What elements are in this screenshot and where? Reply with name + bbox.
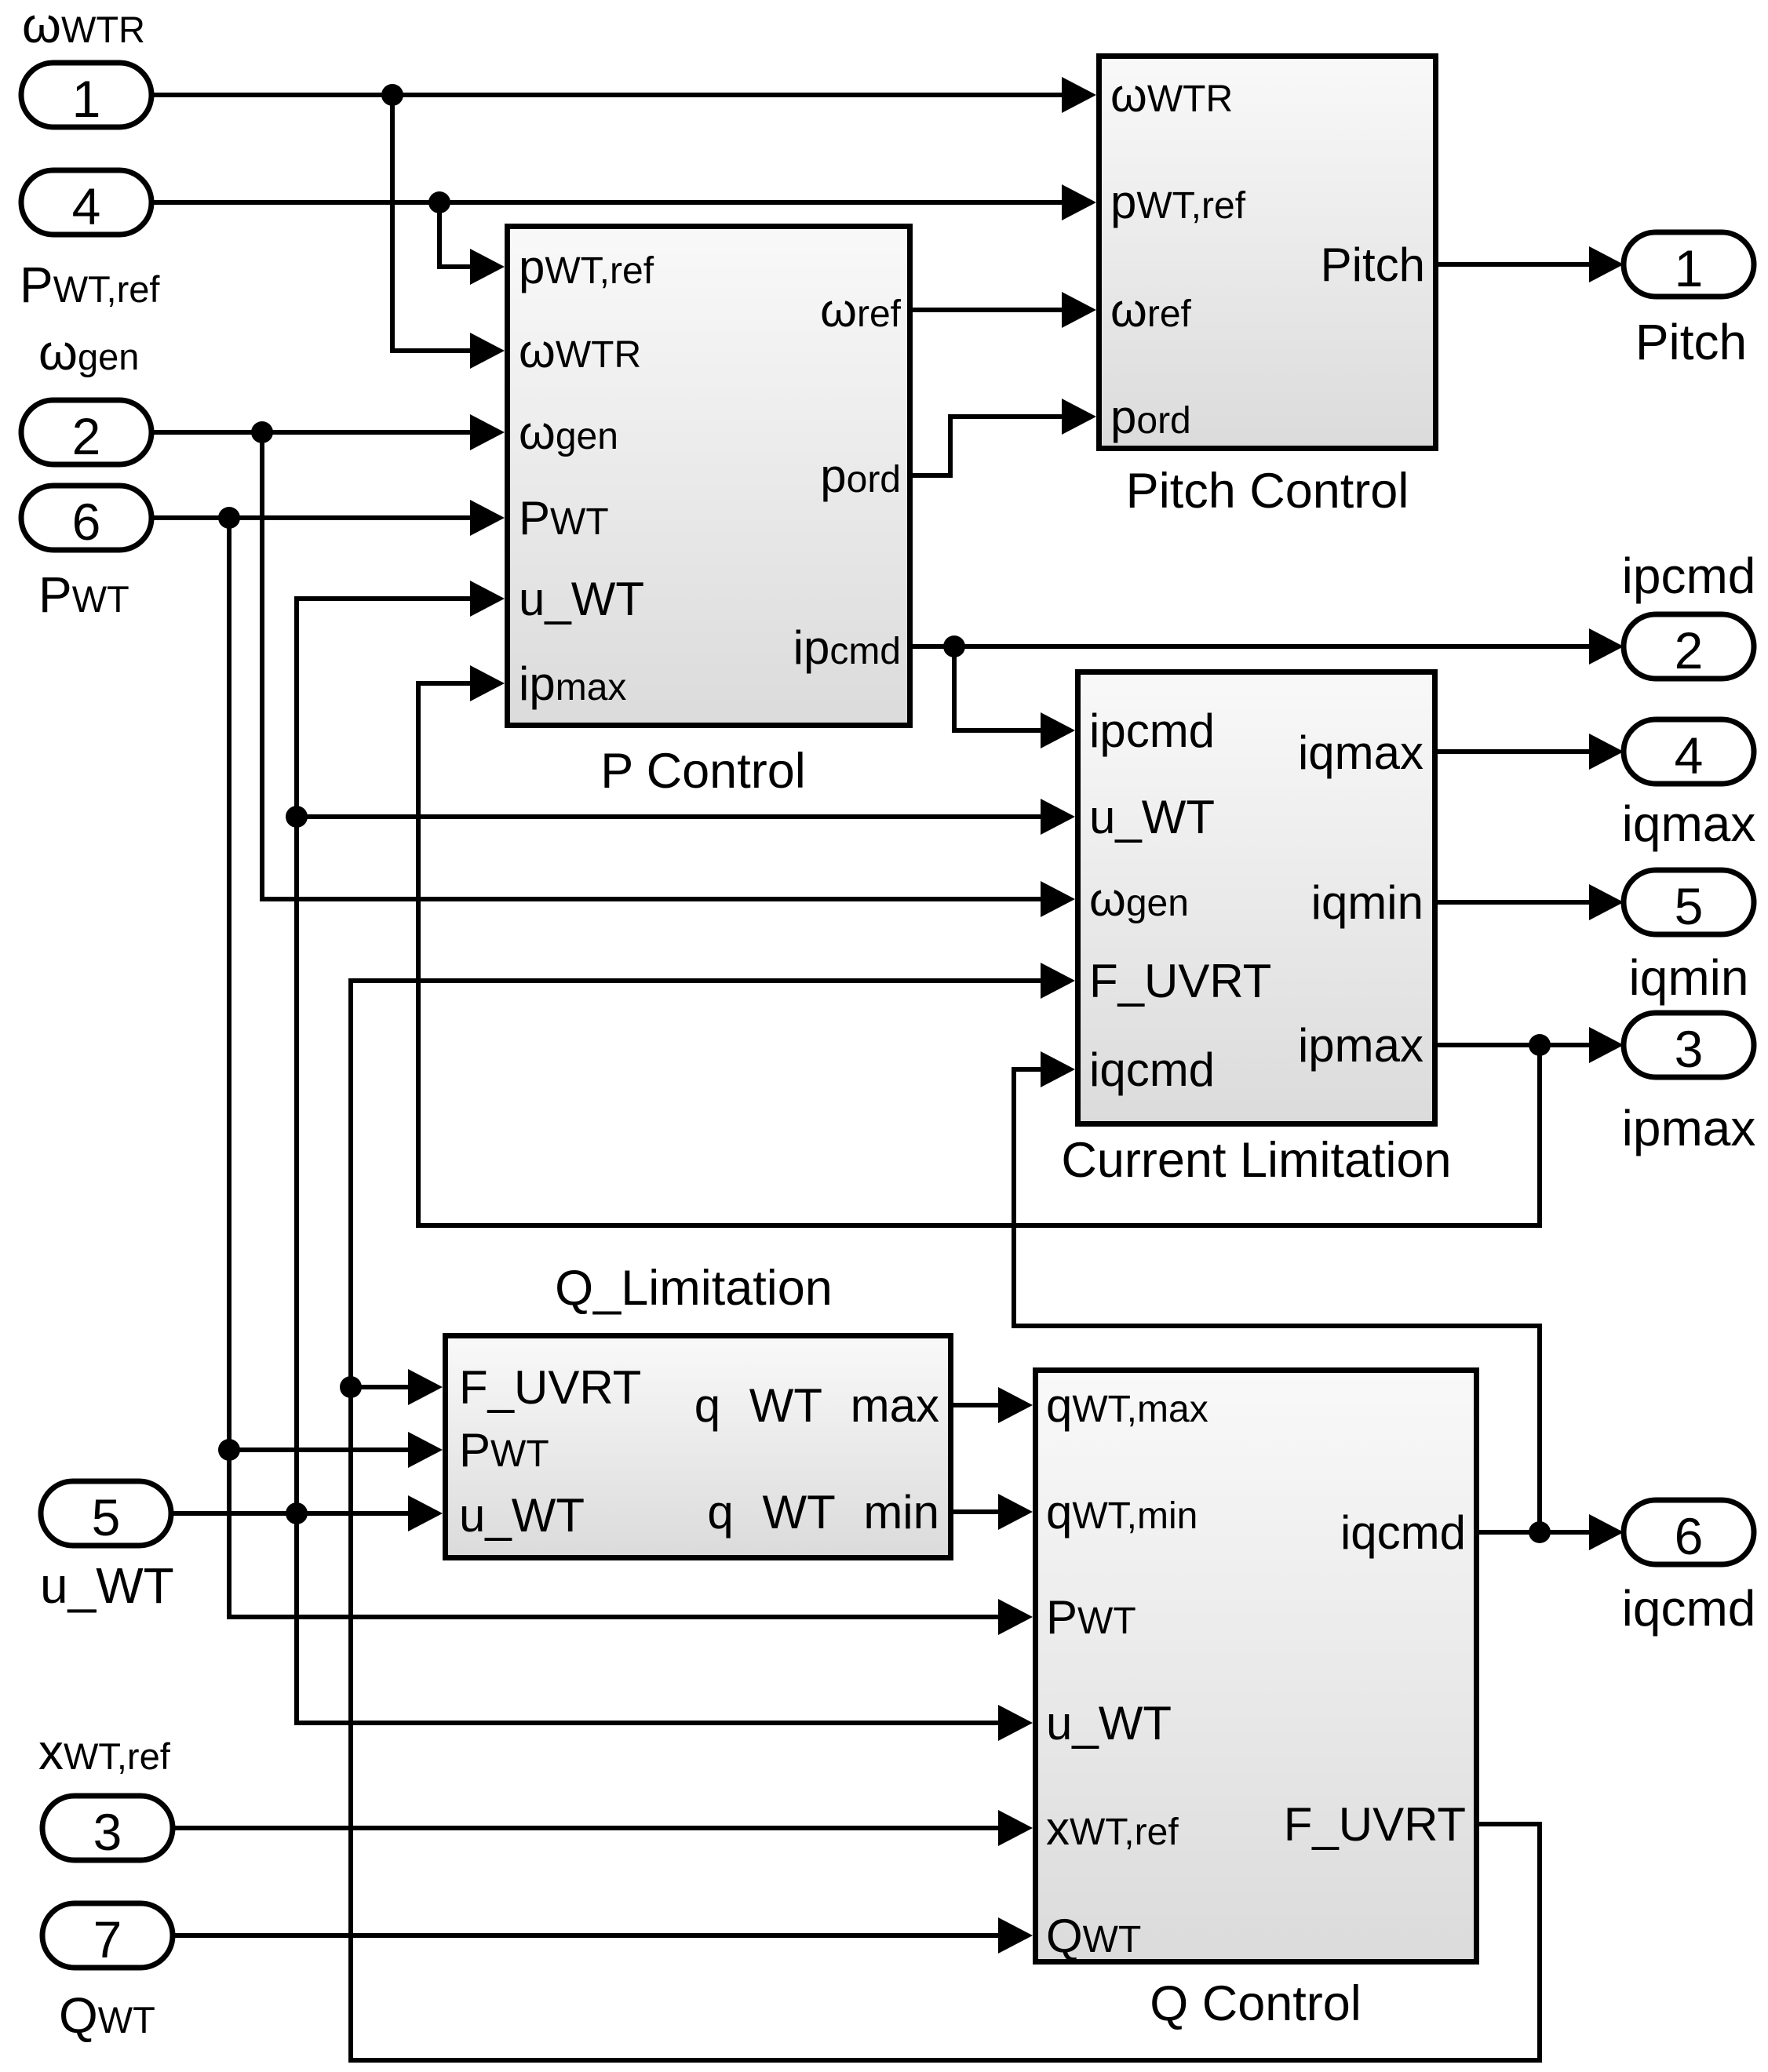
arrowhead xWTref at Q Control [998, 1810, 1033, 1846]
arrowhead at output port 6 [1589, 1514, 1624, 1550]
svg-text:Current Limitation: Current Limitation [1061, 1133, 1451, 1188]
arrowhead u_WT at Q Control [998, 1705, 1033, 1741]
wire F_UVRT branch to Q_Limitation [351, 1385, 410, 1389]
svg-text:u_WT: u_WT [40, 1557, 174, 1614]
arrowhead pord at Pitch Control [1062, 399, 1096, 435]
svg-text:ipmax: ipmax [1298, 1019, 1424, 1072]
input port 1 omega_WTR [21, 63, 151, 127]
wire iqmax to output 4 [1438, 749, 1591, 754]
wire u_WT port5 to Q_Limitation [171, 1511, 410, 1516]
wire ipcmd P Control to output 2 [913, 644, 1591, 649]
svg-text:Q_Limitation: Q_Limitation [555, 1261, 833, 1316]
junction iqcmd [1529, 1521, 1551, 1543]
output port 2 ipcmd [1624, 614, 1754, 679]
wire PWT port6 to P Control [151, 515, 472, 520]
arrowhead u_WT at P Control [470, 581, 505, 617]
svg-text:iqcmd: iqcmd [1089, 1043, 1215, 1096]
junction omegaWTR [381, 84, 403, 106]
svg-text:iqmax: iqmax [1622, 796, 1756, 852]
arrowhead omegaWTR at P Control [470, 333, 505, 369]
svg-text:iqmin: iqmin [1629, 949, 1749, 1006]
svg-text:q WT max: q WT max [694, 1379, 939, 1432]
svg-text:P Control: P Control [600, 744, 805, 799]
output port 1 Pitch [1624, 232, 1754, 297]
block Q_Limitation [446, 1336, 951, 1558]
block Q Control [1036, 1371, 1477, 1962]
svg-text:iqmax: iqmax [1298, 726, 1424, 779]
input port 5 u_WT [41, 1481, 171, 1546]
input port 7 Q_WT [42, 1903, 173, 1968]
arrowhead ipmax at P Control [470, 665, 505, 701]
svg-text:Pitch: Pitch [1321, 239, 1425, 291]
input port 4 P_WT_ref [21, 170, 151, 235]
wire iqcmd feedback to Current Limitation [1014, 1069, 1540, 1532]
arrowhead ipcmd at Current Limitation [1041, 712, 1075, 748]
wire pord P Control to Pitch Control [913, 417, 1064, 475]
wire iqcmd Q Control to output 6 [1479, 1530, 1591, 1535]
junction ipcmd [943, 635, 965, 657]
svg-text:u_WT: u_WT [519, 573, 644, 625]
block Pitch Control [1099, 56, 1436, 449]
input port 2 omega_gen [21, 400, 151, 464]
svg-text:F_UVRT: F_UVRT [1284, 1798, 1466, 1851]
svg-text:6: 6 [72, 493, 101, 551]
svg-text:1: 1 [1675, 239, 1704, 297]
output port 3 ipmax [1624, 1013, 1754, 1077]
svg-text:Q Control: Q Control [1150, 1976, 1362, 2031]
block Current Limitation [1078, 672, 1435, 1124]
arrowhead F_UVRT at Current Limitation [1041, 963, 1075, 999]
wire PWT branch to Q_Limitation [229, 1447, 410, 1452]
wire u_WT bus up to P Control [297, 599, 472, 1513]
svg-text:q WT min: q WT min [707, 1486, 939, 1539]
svg-text:F_UVRT: F_UVRT [1089, 955, 1271, 1007]
svg-text:1: 1 [72, 70, 101, 128]
output port 5 iqmin [1624, 870, 1754, 934]
wire omegaref P Control to Pitch Control [913, 308, 1064, 312]
junction PWT lower [218, 1439, 240, 1461]
wire F_UVRT feedback to Current Limitation [351, 981, 1540, 2060]
wire xWTref port3 to Q Control [173, 1826, 1001, 1830]
svg-text:Pitch Control: Pitch Control [1126, 464, 1409, 519]
svg-text:3: 3 [93, 1803, 122, 1861]
block P Control [508, 227, 910, 726]
wire qWTmin Q_Limitation to Q Control [953, 1509, 1001, 1514]
junction u_WT upper [286, 806, 308, 828]
arrowhead at output port 4 [1589, 734, 1624, 770]
input port 6 P_WT [21, 486, 151, 550]
wire ipmax to output 3 [1438, 1043, 1591, 1047]
arrowhead F_UVRT at Q_Limitation [408, 1369, 443, 1405]
wire qWTmax Q_Limitation to Q Control [953, 1403, 1001, 1407]
svg-text:F_UVRT: F_UVRT [459, 1361, 641, 1414]
arrowhead at output port 5 [1589, 884, 1624, 920]
wire omegagen branch to Current Limitation [262, 432, 1043, 899]
svg-text:Pitch: Pitch [1635, 314, 1747, 370]
wire QWT port7 to Q Control [173, 1933, 1001, 1938]
svg-text:iqcmd: iqcmd [1340, 1506, 1466, 1559]
svg-text:ipcmd: ipcmd [1622, 548, 1756, 604]
wire ipcmd branch to Current Limitation [954, 646, 1043, 730]
output port 6 iqcmd [1624, 1500, 1754, 1564]
svg-text:7: 7 [93, 1910, 122, 1968]
junction u_WT main [286, 1502, 308, 1524]
arrowhead omegaref at Pitch Control [1062, 292, 1096, 328]
arrowhead iqcmd at Current Limitation [1041, 1051, 1075, 1087]
wire omegaWTR port1 to Pitch Control [151, 93, 1064, 97]
svg-text:4: 4 [1675, 726, 1704, 785]
wire ipmax feedback to P Control [418, 683, 1540, 1225]
arrowhead omegaWTR at Pitch Control [1062, 77, 1096, 113]
svg-text:iqmin: iqmin [1311, 876, 1424, 929]
wire omegaWTR branch to P Control [392, 95, 472, 351]
svg-text:ipcmd: ipcmd [1089, 705, 1215, 757]
svg-text:3: 3 [1675, 1020, 1704, 1078]
arrowhead qWTmax at Q Control [998, 1387, 1033, 1423]
wire iqmin to output 5 [1438, 900, 1591, 905]
arrowhead PWT at P Control [470, 500, 505, 536]
wire u_WT branch to Current Limitation [297, 814, 1043, 819]
input port 3 x_WT_ref [42, 1796, 173, 1860]
arrowhead u_WT at Current Limitation [1041, 799, 1075, 835]
svg-text:5: 5 [92, 1488, 121, 1546]
junction ipmax [1529, 1034, 1551, 1056]
svg-text:ipmax: ipmax [1622, 1100, 1756, 1156]
wire u_WT bus down to Q Control [297, 1513, 1001, 1723]
arrowhead qWTmin at Q Control [998, 1494, 1033, 1530]
wire PWTref branch to P Control [439, 202, 472, 267]
arrowhead at output port 3 [1589, 1027, 1624, 1063]
arrowhead PWT at Q_Limitation [408, 1432, 443, 1468]
wire Pitch to output 1 [1438, 262, 1591, 267]
junction PWT upper [218, 507, 240, 529]
arrowhead at output port 1 [1589, 246, 1624, 282]
arrowhead pWTref at P Control [470, 249, 505, 285]
arrowhead omegagen at P Control [470, 414, 505, 450]
svg-text:u_WT: u_WT [459, 1489, 585, 1542]
wire PWTref port4 to Pitch Control [151, 200, 1064, 205]
svg-text:ωWTR: ωWTR [22, 0, 145, 53]
svg-text:u_WT: u_WT [1046, 1697, 1172, 1750]
svg-text:2: 2 [72, 407, 101, 465]
arrowhead omegagen at Current Limitation [1041, 881, 1075, 917]
svg-text:2: 2 [1675, 621, 1704, 679]
svg-text:5: 5 [1675, 877, 1704, 935]
arrowhead QWT at Q Control [998, 1917, 1033, 1954]
svg-text:u_WT: u_WT [1089, 791, 1215, 843]
arrowhead PWT at Q Control [998, 1599, 1033, 1635]
arrowhead pWTref at Pitch Control [1062, 184, 1096, 220]
arrowhead u_WT at Q_Limitation [408, 1495, 443, 1531]
wire omegagen port2 to P Control [151, 430, 472, 435]
junction PWTref [428, 191, 450, 213]
junction F_UVRT [340, 1376, 362, 1398]
arrowhead at output port 2 [1589, 628, 1624, 665]
junction omegagen [251, 421, 273, 443]
svg-text:4: 4 [72, 177, 101, 235]
svg-text:iqcmd: iqcmd [1622, 1580, 1756, 1637]
output port 4 iqmax [1624, 719, 1754, 784]
wire PWT bus to Q Control [229, 518, 1001, 1617]
svg-text:6: 6 [1675, 1507, 1704, 1565]
